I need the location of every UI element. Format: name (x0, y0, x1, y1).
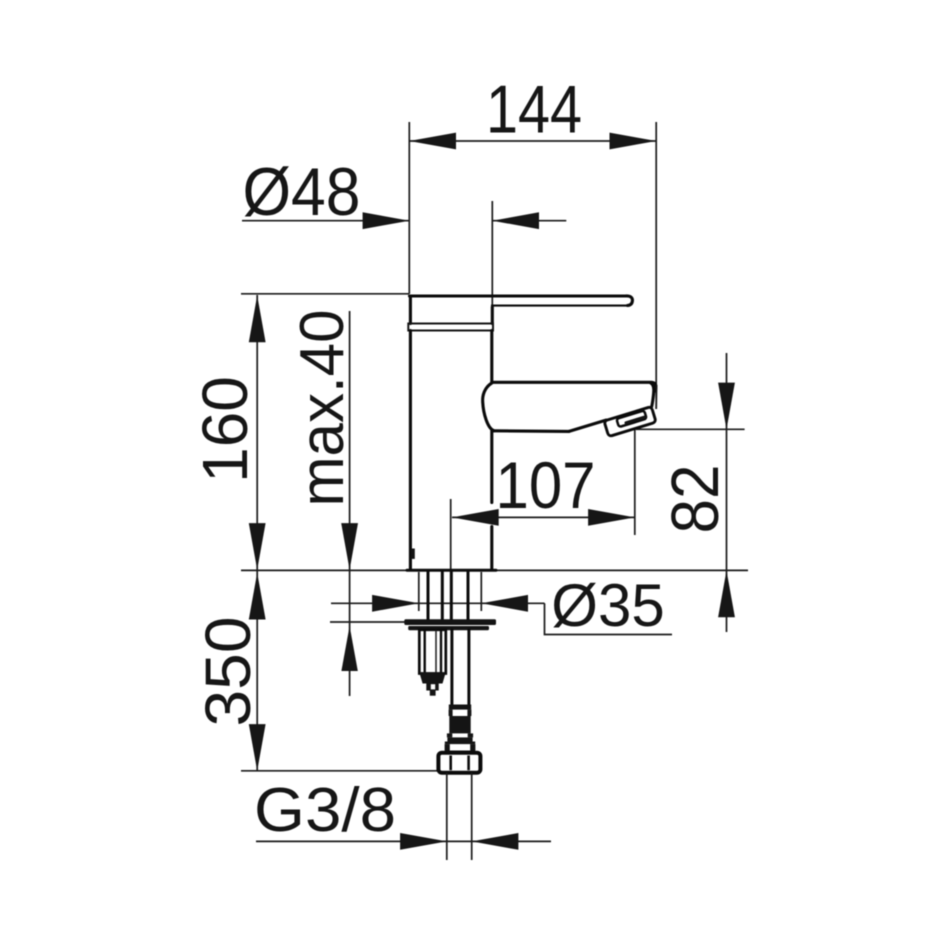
svg-text:max.40: max.40 (288, 310, 357, 507)
svg-text:Ø35: Ø35 (551, 572, 664, 639)
svg-text:Ø48: Ø48 (243, 154, 361, 230)
svg-text:144: 144 (486, 72, 582, 148)
svg-text:82: 82 (658, 465, 733, 534)
svg-text:160: 160 (189, 376, 261, 483)
svg-text:107: 107 (496, 448, 596, 522)
svg-text:G3/8: G3/8 (254, 776, 396, 845)
svg-text:350: 350 (192, 617, 264, 727)
